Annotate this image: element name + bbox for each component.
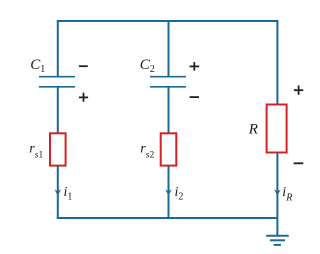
arrow i2 [165, 189, 172, 196]
resistor rs1 [50, 133, 66, 165]
ground [266, 236, 289, 245]
wire middle branch lower [168, 166, 170, 219]
svg-text:i1: i1 [64, 185, 73, 203]
wire middle branch middle [168, 87, 170, 134]
wire left branch middle [57, 87, 59, 134]
wire left branch lower [57, 166, 59, 220]
plus sign C1 bottom [79, 93, 88, 102]
svg-text:rs1: rs1 [29, 142, 43, 161]
wire left branch upper [57, 20, 59, 77]
wire right branch upper [276, 21, 278, 105]
minus sign R bottom [294, 162, 304, 164]
plus sign C2 top [190, 62, 200, 71]
svg-text:R: R [248, 121, 258, 137]
plus sign R top [294, 86, 303, 95]
svg-text:i2: i2 [175, 185, 184, 203]
wire middle branch upper [168, 21, 170, 77]
minus sign C2 bottom [190, 96, 199, 98]
svg-text:rs2: rs2 [140, 142, 154, 161]
resistor rs2 [161, 133, 177, 165]
capacitor C1 [39, 77, 75, 87]
minus sign C1 top [79, 65, 88, 67]
wire top horizontal [57, 20, 279, 22]
svg-text:C1: C1 [30, 57, 45, 75]
wire bottom horizontal [57, 217, 278, 219]
resistor R [267, 105, 287, 153]
wire right branch lower [276, 152, 278, 236]
svg-text:iR: iR [282, 185, 292, 204]
arrow iR [274, 189, 281, 196]
capacitor C2 [150, 77, 186, 87]
arrow i1 [55, 189, 62, 196]
svg-text:C2: C2 [140, 57, 155, 75]
